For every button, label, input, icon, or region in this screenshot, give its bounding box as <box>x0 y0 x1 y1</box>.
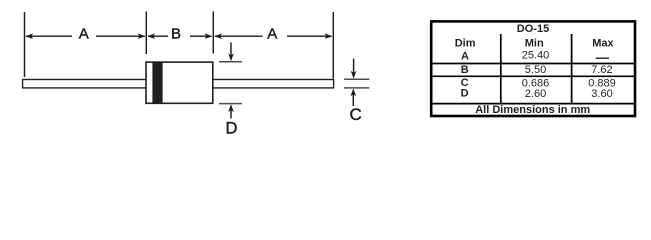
C extension line bottom <box>344 87 369 89</box>
table rule above footer <box>431 103 635 105</box>
cathode band <box>152 62 162 103</box>
dimension line A left segment 1 <box>26 35 72 37</box>
svg-text:Min: Min <box>525 38 544 50</box>
D arrow bottom <box>230 110 232 118</box>
svg-text:D: D <box>461 88 469 100</box>
diode body <box>146 62 213 103</box>
svg-text:All Dimensions in mm: All Dimensions in mm <box>475 104 590 116</box>
table rule below row A <box>431 63 635 65</box>
svg-text:A: A <box>461 50 469 62</box>
svg-text:Max: Max <box>592 38 614 50</box>
svg-text:Dim: Dim <box>455 38 476 50</box>
svg-text:25.40: 25.40 <box>522 50 550 62</box>
extension line A/B <box>145 12 147 55</box>
lead wire <box>23 80 334 88</box>
C arrow top <box>353 59 355 74</box>
arrowhead A left-left <box>25 33 33 39</box>
D arrow top <box>230 43 232 57</box>
D extension line top <box>219 61 242 63</box>
D extension line bottom <box>219 103 242 105</box>
table rule below row B <box>431 75 635 77</box>
arrowhead A right-left <box>214 33 222 39</box>
extension line right <box>332 12 334 79</box>
svg-text:B: B <box>461 64 469 76</box>
arrowhead A right-right <box>325 33 333 39</box>
arrowhead B left <box>147 33 155 39</box>
svg-text:3.60: 3.60 <box>591 88 612 100</box>
extension line B/A <box>212 12 214 54</box>
table column separator 1 <box>500 34 502 104</box>
dimension line A left segment 2 <box>96 35 145 37</box>
C extension line top <box>344 78 369 80</box>
svg-text:2.60: 2.60 <box>525 88 546 100</box>
svg-text:DO-15: DO-15 <box>517 23 549 35</box>
row A max dash <box>596 58 609 59</box>
svg-text:5.50: 5.50 <box>525 64 546 76</box>
arrowhead A left-right <box>138 33 146 39</box>
dimension line A right segment 2 <box>287 35 332 37</box>
svg-text:7.62: 7.62 <box>591 64 612 76</box>
C arrow bottom <box>352 95 354 107</box>
svg-text:A: A <box>79 26 89 43</box>
svg-text:C: C <box>349 105 361 124</box>
svg-text:A: A <box>267 26 277 43</box>
dimension line B segment 1 <box>148 35 168 37</box>
dimension line B segment 2 <box>190 35 212 37</box>
dimension line A right segment 1 <box>215 35 263 37</box>
svg-text:D: D <box>225 120 237 138</box>
table column separator 2 <box>571 34 573 104</box>
svg-text:B: B <box>171 26 181 43</box>
table outer border <box>431 21 635 116</box>
extension line left <box>24 12 26 77</box>
arrowhead B right <box>205 33 213 39</box>
